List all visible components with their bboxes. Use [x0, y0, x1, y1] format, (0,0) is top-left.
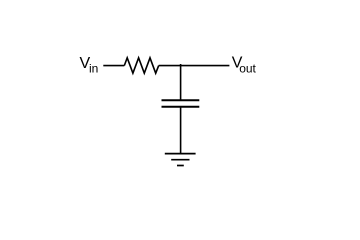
svg-text:in: in — [89, 61, 98, 75]
resistor R1 — [124, 58, 158, 73]
wire capacitor to ground — [180, 107, 182, 154]
wire Vin to resistor — [103, 65, 124, 67]
capacitor C1 — [162, 100, 200, 106]
wire node to capacitor — [180, 64, 182, 100]
ground — [165, 154, 196, 166]
wire resistor to Vout — [159, 65, 230, 67]
node Vout — [232, 55, 257, 76]
node Vin — [80, 55, 99, 76]
svg-text:out: out — [239, 62, 256, 76]
